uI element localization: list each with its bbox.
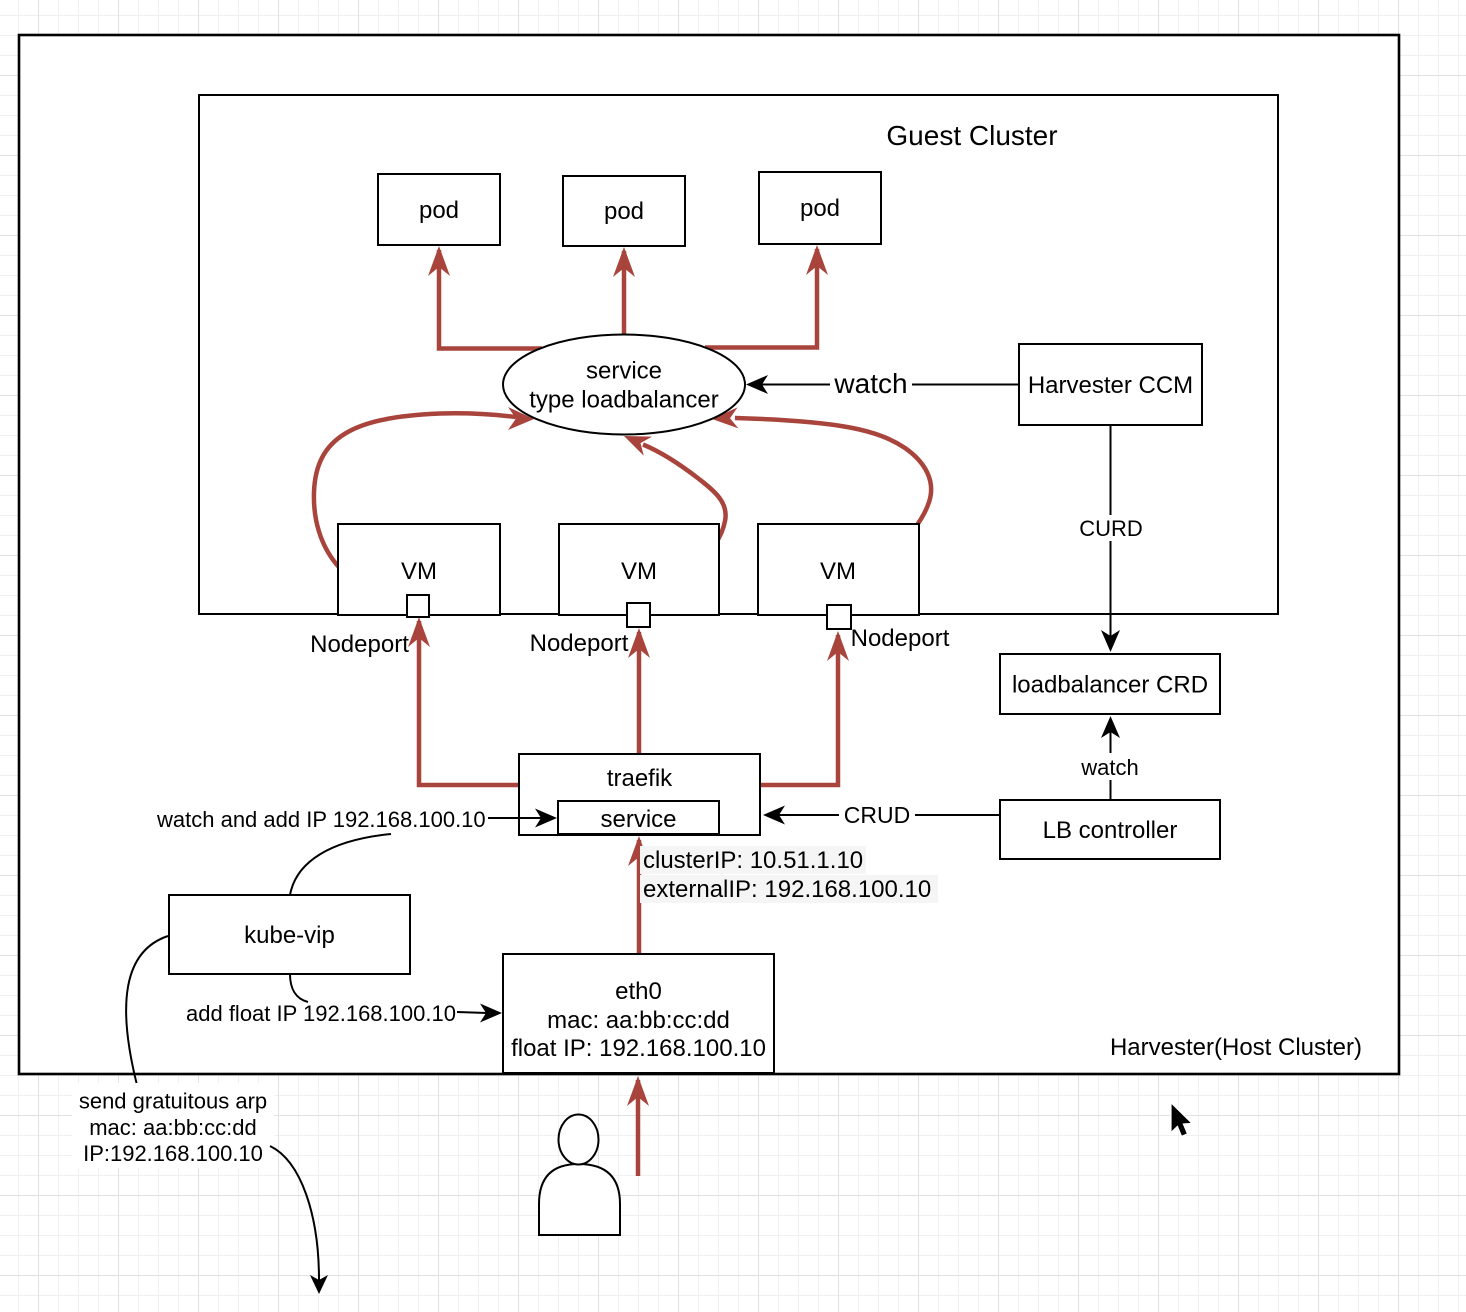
svg-text:add float IP 192.168.100.10: add float IP 192.168.100.10 [186,1001,456,1026]
svg-text:pod: pod [604,198,644,225]
svg-text:traefik: traefik [607,765,673,792]
svg-text:Nodeport: Nodeport [851,625,950,652]
svg-text:service: service [600,806,676,833]
svg-text:IP:192.168.100.10: IP:192.168.100.10 [83,1141,263,1166]
svg-text:eth0: eth0 [615,978,662,1005]
svg-text:CRUD: CRUD [844,802,910,828]
svg-text:VM: VM [820,558,856,585]
svg-text:pod: pod [800,195,840,222]
svg-text:externalIP: 192.168.100.10: externalIP: 192.168.100.10 [643,876,931,903]
svg-text:mac: aa:bb:cc:dd: mac: aa:bb:cc:dd [547,1007,730,1034]
svg-text:LB controller: LB controller [1043,817,1178,844]
svg-text:float IP: 192.168.100.10: float IP: 192.168.100.10 [511,1035,766,1062]
svg-text:watch: watch [833,368,907,399]
svg-text:clusterIP: 10.51.1.10: clusterIP: 10.51.1.10 [643,847,863,874]
svg-text:VM: VM [621,558,657,585]
svg-text:watch: watch [1080,755,1138,780]
svg-text:service: service [586,358,662,385]
svg-text:kube-vip: kube-vip [244,922,335,949]
svg-text:Guest Cluster: Guest Cluster [886,120,1057,151]
svg-text:loadbalancer CRD: loadbalancer CRD [1012,672,1208,699]
svg-text:VM: VM [401,558,437,585]
svg-text:type loadbalancer: type loadbalancer [529,387,718,414]
svg-text:CURD: CURD [1079,516,1143,541]
svg-text:watch and add IP 192.168.100.1: watch and add IP 192.168.100.10 [156,807,486,832]
svg-text:Nodeport: Nodeport [530,630,629,657]
svg-text:mac: aa:bb:cc:dd: mac: aa:bb:cc:dd [89,1115,257,1140]
svg-text:pod: pod [419,197,459,224]
svg-text:Nodeport: Nodeport [310,631,409,658]
svg-text:send gratuitous arp: send gratuitous arp [79,1089,267,1114]
svg-text:Harvester CCM: Harvester CCM [1028,372,1193,399]
svg-text:Harvester(Host Cluster): Harvester(Host Cluster) [1110,1034,1362,1061]
